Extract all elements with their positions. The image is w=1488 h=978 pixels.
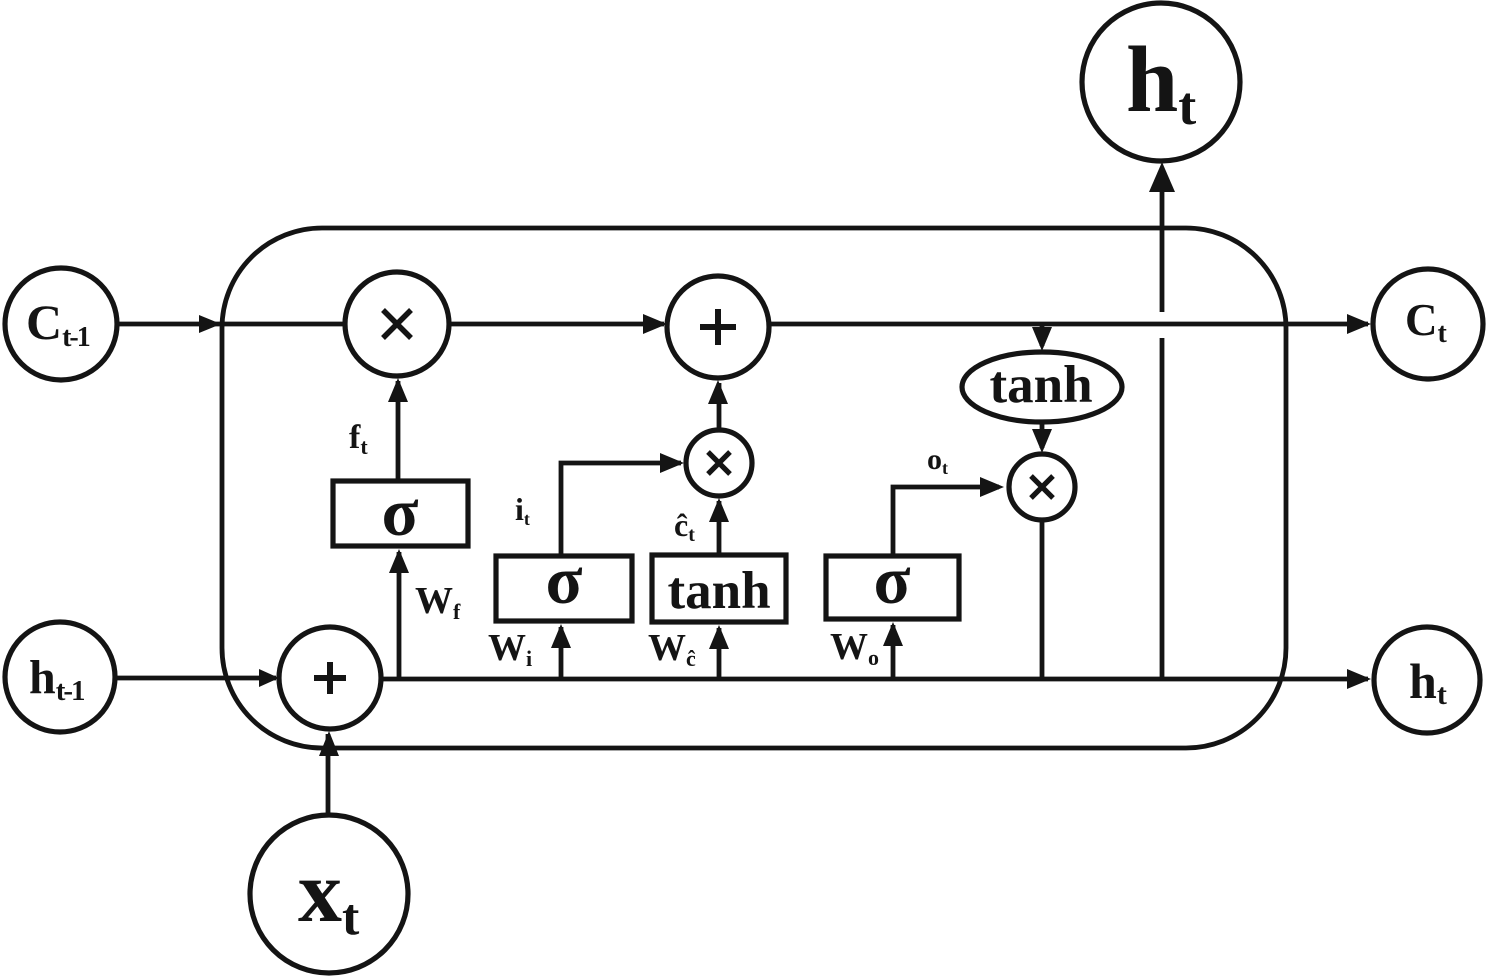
wire sigma o box to output multiply: [893, 477, 1004, 556]
label W_o: [830, 626, 879, 670]
wire C_t-1 to multiply gate: [117, 315, 345, 333]
sigma f box (forget gate): [333, 474, 468, 550]
wire h line up to sigma f box: [389, 549, 409, 679]
label W_i: [488, 627, 532, 671]
add gate (input combine): [279, 627, 381, 729]
wire h_t-1 to add gate: [115, 669, 279, 687]
multiply gate (candidate): [686, 430, 752, 496]
node h_t right output: [1374, 627, 1480, 733]
multiply gate (output): [1009, 454, 1075, 520]
wire candidate multiply up to add gate: [708, 380, 728, 430]
wire output multiply down to h line: [1040, 520, 1045, 681]
svg-text:Wi: Wi: [488, 627, 532, 671]
wire h line up to h_t top (hops over C line): [1149, 162, 1175, 679]
label W_c-hat: [648, 627, 696, 671]
node C_t-1: [5, 268, 117, 380]
wire h line up to sigma i box: [551, 624, 571, 679]
wire sigma f box up to multiply gate: [388, 378, 408, 481]
sigma o box (output gate): [826, 542, 959, 619]
wire h line up to tanh box: [709, 625, 729, 679]
wire multiply to add gate: [449, 314, 667, 334]
wire branch down to tanh ellipse: [1032, 324, 1052, 351]
wire sigma i box to candidate multiply: [561, 453, 684, 556]
tanh box (candidate): [652, 555, 786, 622]
wire h line up to sigma o box: [883, 622, 903, 679]
cell body rounded rectangle: [222, 228, 1286, 748]
wire tanh box up to candidate multiply: [709, 498, 729, 555]
svg-text:tanh: tanh: [989, 356, 1092, 414]
label W_f: [415, 580, 461, 624]
node h_t top output: [1082, 3, 1240, 161]
add gate (cell update): [667, 276, 769, 378]
label c-hat_t: [674, 507, 695, 546]
svg-text:tanh: tanh: [667, 562, 770, 620]
label i_t: [515, 491, 530, 529]
node X_t: [250, 815, 408, 973]
wire add gate to C_t: [770, 314, 1371, 334]
wire h line to h_t output: [381, 669, 1371, 689]
tanh ellipse (cell output squash): [962, 352, 1122, 422]
wire tanh ellipse to output multiply: [1032, 422, 1052, 453]
multiply gate (forget): [345, 272, 449, 376]
node h_t-1: [5, 622, 115, 732]
label o_t: [927, 443, 948, 478]
svg-text:σ: σ: [546, 542, 583, 618]
sigma i box (input gate): [496, 542, 632, 621]
svg-text:σ: σ: [382, 474, 419, 550]
label f_t: [349, 419, 368, 459]
svg-text:σ: σ: [874, 542, 911, 618]
node C_t: [1373, 269, 1483, 379]
wire X_t up to add gate: [319, 731, 339, 817]
